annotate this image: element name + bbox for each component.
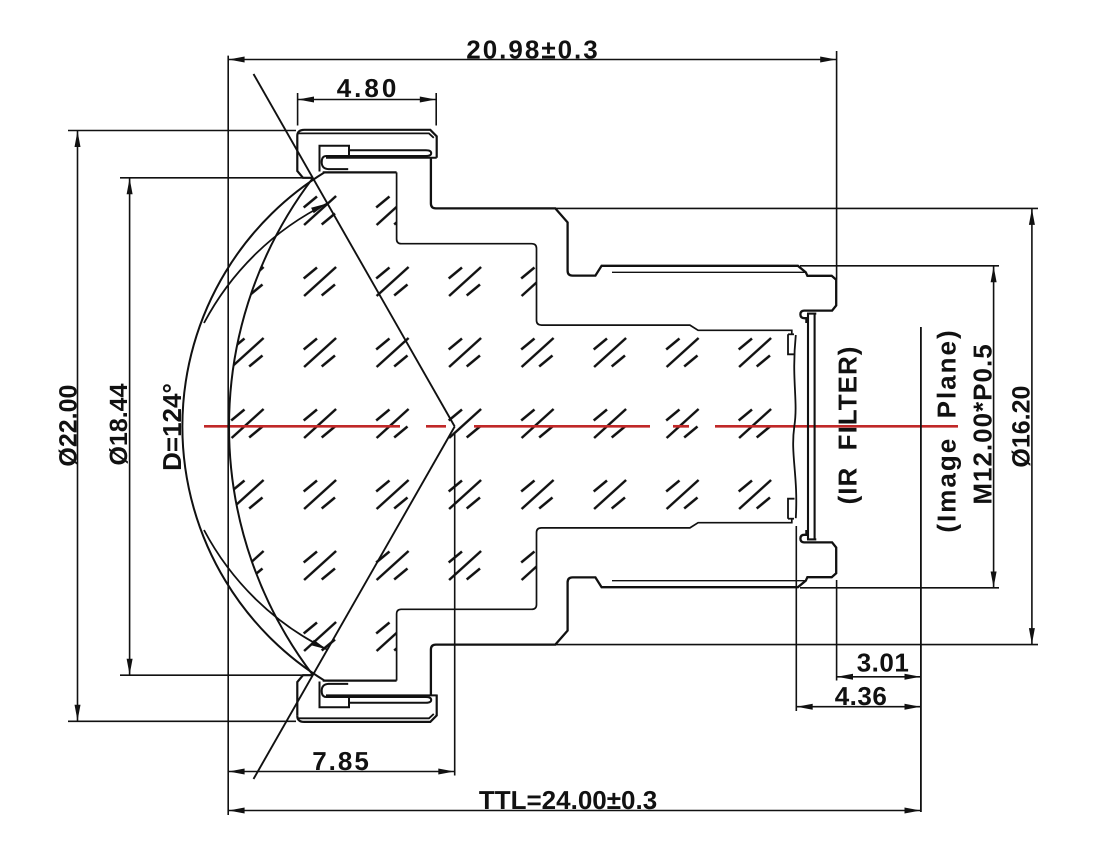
svg-text:4.80: 4.80	[337, 73, 400, 103]
dimension 7.85	[228, 432, 455, 776]
D=124 angular arc upper with arrow	[204, 204, 327, 324]
svg-text:TTL=24.00±0.3: TTL=24.00±0.3	[479, 785, 657, 815]
thread root line bottom	[612, 580, 806, 582]
image plane line	[920, 327, 922, 812]
barrel inner wall bottom	[397, 519, 792, 681]
lock ring top: left step	[320, 146, 350, 172]
lock ring top: slot lines	[326, 150, 431, 156]
dimension 4.36	[796, 526, 921, 711]
svg-text:4.36: 4.36	[835, 681, 888, 711]
rear lens element rim + aspheric rear surface	[788, 334, 796, 518]
thread root line top	[612, 271, 806, 273]
lock ring bottom: bore edge line	[326, 694, 437, 696]
dimension Ø16.20	[555, 208, 1038, 644]
lock ring top: bore edge line	[326, 157, 437, 159]
dimension TTL=24.00±0.3	[228, 810, 921, 812]
flange left edge bottom	[297, 675, 313, 716]
flange left edge top	[297, 136, 313, 178]
lock ring bottom: outer edge	[297, 695, 436, 722]
D=124 angular arc lower with arrow	[204, 530, 327, 650]
svg-text:20.98±0.3: 20.98±0.3	[466, 34, 599, 64]
lock ring bottom: inner double edge	[298, 714, 434, 718]
lock ring top: outer edge	[297, 130, 436, 158]
dimension 20.98±0.3	[228, 51, 836, 815]
lock ring top: C-connector and lip	[322, 156, 349, 169]
dimension 3.01	[837, 580, 921, 681]
lock ring bottom: C-connector and lip	[322, 684, 349, 697]
svg-text:M12.00*P0.5: M12.00*P0.5	[968, 343, 998, 504]
front lens inner surface arc	[229, 178, 313, 675]
barrel inner wall top	[397, 172, 792, 334]
svg-text:Ø18.44: Ø18.44	[105, 383, 133, 465]
IR filter plate	[807, 314, 816, 540]
svg-text:(IR FILTER): (IR FILTER)	[833, 346, 863, 505]
centerline (red)	[204, 425, 958, 428]
svg-text:D=124°: D=124°	[157, 383, 187, 471]
lock ring bottom: left step	[320, 682, 350, 708]
svg-text:7.85: 7.85	[312, 746, 371, 776]
dimension M12.00*P0.5	[800, 266, 999, 588]
svg-text:Ø22.00: Ø22.00	[54, 385, 82, 467]
dimension Ø22.00	[68, 131, 296, 722]
svg-text:3.01: 3.01	[857, 648, 910, 678]
lock ring top: inner double edge	[298, 133, 434, 137]
dimension 4.80	[298, 93, 437, 126]
dimension Ø18.44	[120, 178, 313, 675]
FOV ray lower	[254, 427, 455, 780]
svg-text:(Image Plane): (Image Plane)	[932, 328, 962, 532]
barrel outline bottom	[431, 530, 836, 695]
FOV ray upper	[254, 74, 455, 427]
glass hatch fill	[150, 150, 850, 710]
barrel outline top	[431, 158, 836, 323]
lock ring bottom: slot lines	[326, 697, 431, 703]
front lens outer surface arc	[182, 172, 324, 680]
svg-text:Ø16.20: Ø16.20	[1008, 386, 1036, 468]
lock ring top: seat line	[323, 171, 397, 173]
lock ring bottom: seat line	[323, 679, 397, 681]
